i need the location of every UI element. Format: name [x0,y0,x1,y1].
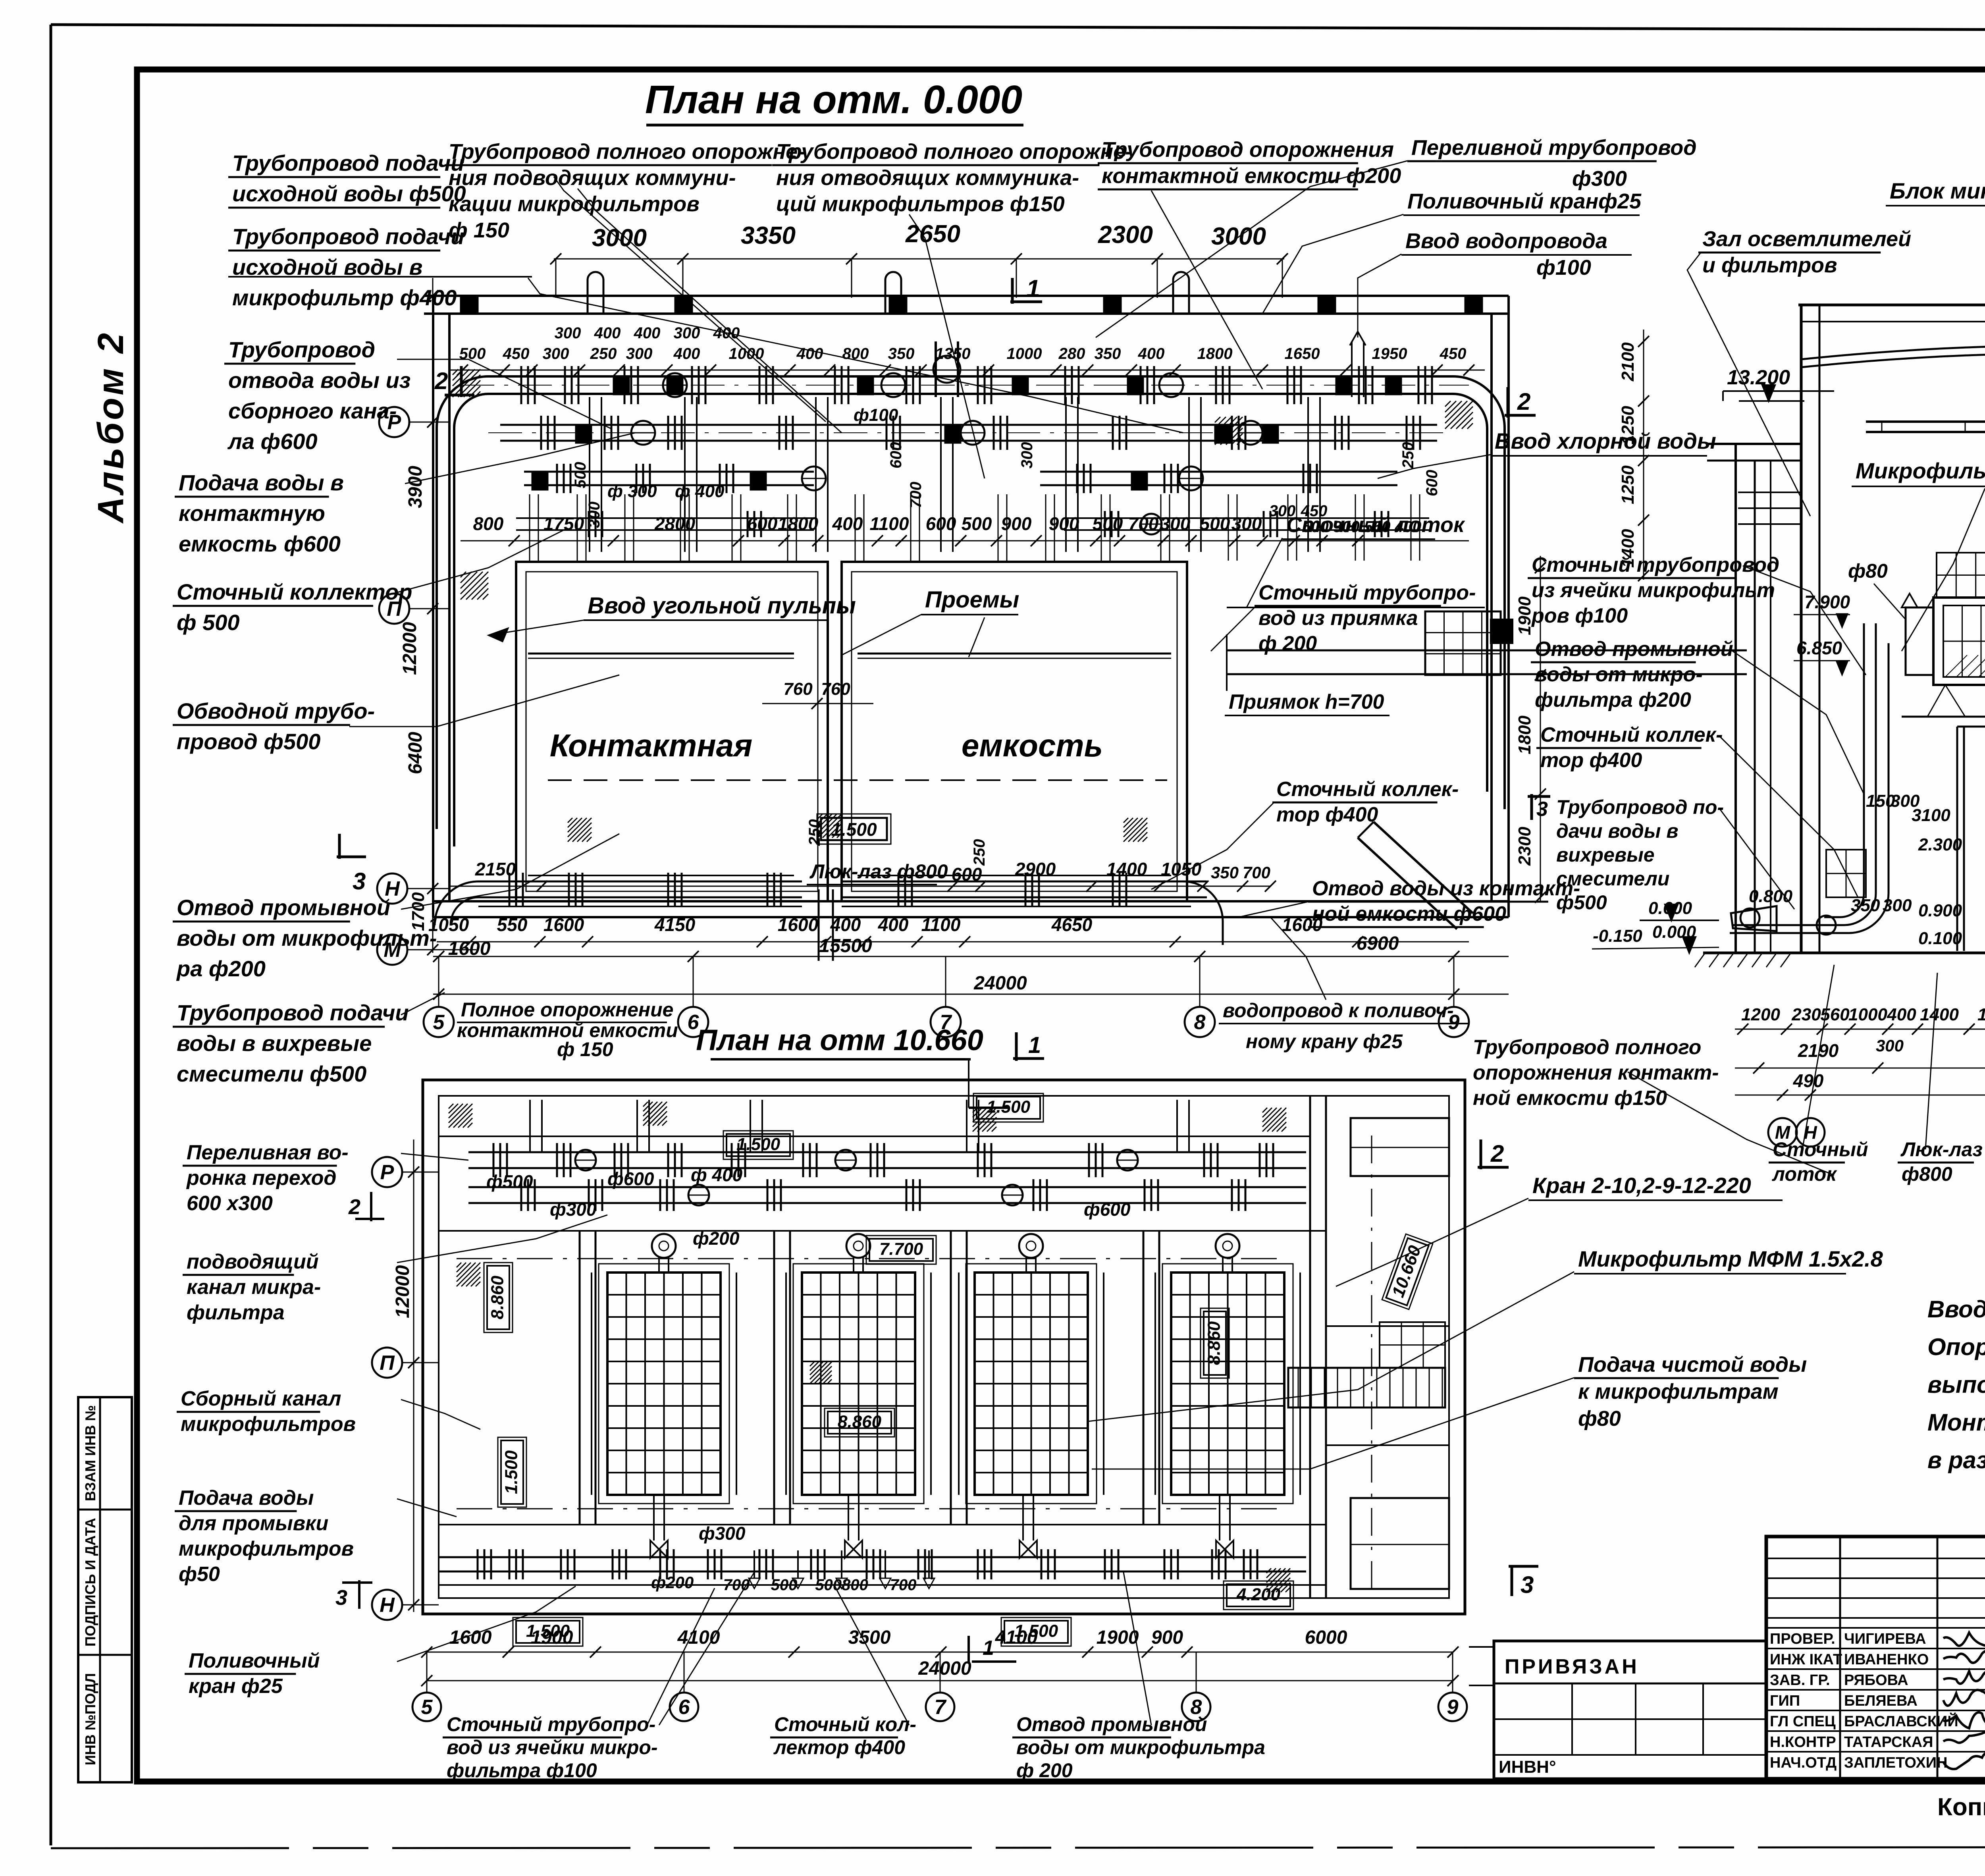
section axis bubbles [1768,1118,1797,1147]
section mark 3 left [337,856,366,858]
left riser pipes [1863,623,1865,893]
hatch marks in pipe zone [453,369,458,375]
svg-text:Отвод воды из контакт-: Отвод воды из контакт- [1312,877,1580,900]
svg-text:ф 150: ф 150 [449,218,509,242]
svg-text:1900: 1900 [1097,1627,1139,1648]
section mark 2 left [460,366,463,397]
svg-text:ций микрофильтров ф150: ций микрофильтров ф150 [776,192,1065,216]
svg-text:490: 490 [1793,1070,1824,1091]
upper plan left vertical dims [432,278,434,953]
svg-text:фильтра ф200: фильтра ф200 [1535,688,1691,711]
svg-text:300: 300 [1883,896,1912,915]
svg-text:500: 500 [572,462,589,488]
svg-text:7.900: 7.900 [1804,592,1850,612]
svg-text:Поливочный: Поливочный [189,1649,320,1672]
svg-text:12000: 12000 [392,1265,413,1318]
svg-text:Н: Н [380,1594,395,1617]
svg-text:400: 400 [673,345,700,362]
svg-text:450: 450 [1440,345,1467,362]
svg-text:2100: 2100 [1618,342,1638,382]
svg-text:450: 450 [503,345,530,362]
svg-text:Монтаж микрофильтров выполнять: Монтаж микрофильтров выполнять [1927,1409,1985,1436]
section: tile band above filter [1937,553,1985,598]
svg-text:1000: 1000 [1007,345,1042,362]
svg-text:Микрофильтр МФМ 1.5х2.8: Микрофильтр МФМ 1.5х2.8 [1578,1246,1883,1271]
section mark 1 (top) [1010,301,1042,303]
pipe flange groups [520,366,522,404]
svg-text:600: 600 [1423,470,1441,496]
svg-text:1: 1 [1028,1032,1041,1058]
svg-text:Поливочный кранф25: Поливочный кранф25 [1407,189,1642,213]
svg-text:7: 7 [935,1696,947,1719]
svg-text:1250: 1250 [1618,465,1638,504]
svg-text:Обводной трубо-: Обводной трубо- [177,698,375,723]
svg-text:4100: 4100 [995,1627,1038,1648]
svg-text:вихревые: вихревые [1556,844,1655,866]
svg-text:ф 500: ф 500 [177,610,240,635]
svg-text:350: 350 [888,345,915,362]
svg-text:Сточный коллек-: Сточный коллек- [1540,723,1723,746]
svg-text:1400: 1400 [1920,1005,1959,1024]
svg-text:Копировал· Коршунова: Копировал· Коршунова [1937,1793,1985,1821]
svg-text:3: 3 [353,868,366,895]
svg-text:8.860: 8.860 [1204,1321,1224,1365]
svg-text:Альбом 2: Альбом 2 [91,331,131,524]
fourth pipeline segments [516,517,814,519]
svg-text:Ввод хлорной воды: Ввод хлорной воды [1495,428,1716,453]
svg-text:к микрофильтрам: к микрофильтрам [1578,1380,1779,1404]
svg-text:-0.150: -0.150 [1593,926,1642,946]
svg-text:РЯБОВА: РЯБОВА [1844,1672,1908,1689]
svg-text:230: 230 [1791,1005,1821,1024]
svg-text:Трубопровод подачи: Трубопровод подачи [232,150,464,175]
svg-text:ному крану ф25: ному крану ф25 [1246,1030,1403,1053]
svg-text:ГЛ СПЕЦ: ГЛ СПЕЦ [1770,1713,1836,1730]
svg-text:6.850: 6.850 [1796,638,1842,658]
svg-text:ИНВ №ПОДЛ: ИНВ №ПОДЛ [82,1673,98,1765]
lower plan bottom pipe corridor [439,1556,1306,1558]
svg-text:дачи воды в: дачи воды в [1556,820,1679,842]
svg-text:2: 2 [348,1195,360,1219]
svg-text:600: 600 [747,513,778,534]
left stamp table [78,1397,132,1782]
svg-text:провод ф500: провод ф500 [177,729,320,754]
svg-text:Опоры под трубопроводы и армат: Опоры под трубопроводы и арматуры [1927,1334,1985,1360]
svg-text:кации микрофильтров: кации микрофильтров [449,192,700,216]
svg-text:6000: 6000 [1305,1627,1347,1648]
svg-text:250: 250 [1399,442,1417,469]
section mark 1 inside lower dims [967,1636,970,1664]
svg-text:1000: 1000 [1848,1005,1887,1024]
svg-text:300: 300 [1160,513,1191,534]
left extension rows of privyazan table [1469,1646,1494,1648]
svg-text:План на отм. 0.000: План на отм. 0.000 [645,77,1022,122]
svg-text:900: 900 [1049,513,1079,534]
svg-text:9: 9 [1447,1696,1459,1719]
svg-text:700: 700 [890,1576,917,1594]
svg-text:ИНЖ IКАТ: ИНЖ IКАТ [1770,1651,1842,1668]
title block outer [1766,1537,1985,1779]
1.500 box near luk-laz [821,818,887,840]
svg-text:760: 760 [821,679,850,699]
svg-text:Трубопровод полного опорожне-: Трубопровод полного опорожне- [776,140,1132,164]
svg-text:ф300: ф300 [1572,167,1627,191]
second lower pipe [478,906,802,907]
drain diagonal pipe [1358,838,1457,929]
valves lower plan top [575,1150,596,1170]
drum axles [652,1234,676,1258]
svg-text:Люк-лаз: Люк-лаз [1900,1138,1983,1161]
svg-text:Трубопровод: Трубопровод [228,337,375,362]
svg-text:1050: 1050 [1161,859,1202,879]
svg-text:ф 400: ф 400 [675,482,725,501]
right corridor walls [1309,1096,1311,1598]
bottom connections of cells [653,1495,655,1541]
svg-text:ф50: ф50 [179,1563,220,1586]
svg-text:ф100: ф100 [854,405,898,425]
section: adjacent hall (left) [1734,444,1737,953]
svg-text:и фильтров: и фильтров [1702,253,1837,277]
svg-text:вод из ячейки микро-: вод из ячейки микро- [447,1736,658,1758]
svg-text:ЗАВ. ГР.: ЗАВ. ГР. [1770,1672,1830,1689]
vertical pipe connectors [589,397,590,552]
svg-text:2900: 2900 [1015,859,1056,879]
svg-text:тор ф400: тор ф400 [1276,803,1378,826]
upper plan right zone: drain channel [1227,607,1485,608]
svg-text:1100: 1100 [870,513,909,534]
svg-text:400: 400 [634,324,661,342]
pipe centerlines [461,385,1469,386]
svg-text:1400: 1400 [1106,859,1147,879]
svg-text:3900: 3900 [405,466,426,508]
svg-text:ф 200: ф 200 [1016,1759,1073,1782]
svg-text:канал микра-: канал микра- [187,1276,321,1299]
upper plan: main pipelines [488,375,1453,378]
svg-text:Блок микрофильтров: Блок микрофильтров [1890,178,1985,203]
svg-text:6400: 6400 [405,732,426,774]
svg-text:Н.КОНТР: Н.КОНТР [1770,1734,1836,1751]
lower pipe of plan [478,881,802,883]
svg-text:ф300: ф300 [550,1199,597,1220]
pipe valves [663,373,687,397]
svg-text:отвода воды из: отвода воды из [228,368,410,393]
svg-text:ф 400: ф 400 [691,1165,743,1185]
svg-text:ф500: ф500 [1556,891,1607,914]
svg-text:контактной емкости ф200: контактной емкости ф200 [1102,164,1401,188]
svg-text:1.500: 1.500 [831,819,877,840]
svg-text:500: 500 [962,513,992,534]
svg-text:350: 350 [1095,345,1121,362]
svg-text:1800: 1800 [1515,715,1534,754]
ground line + hatch [1703,952,1985,954]
svg-text:8.860: 8.860 [488,1275,507,1319]
svg-text:ф800: ф800 [1902,1163,1952,1185]
svg-text:Трубопровод подачи: Трубопровод подачи [177,1000,409,1025]
left bottom cone + elbow [1731,906,1777,931]
svg-text:0.800: 0.800 [1749,887,1793,906]
svg-text:Отвод промывной: Отвод промывной [1016,1713,1207,1735]
svg-text:Сточный трубопровод: Сточный трубопровод [1532,553,1779,576]
contact tank B [842,562,1187,901]
svg-text:Зал осветлителей: Зал осветлителей [1702,227,1911,251]
svg-text:Ввод угольной пульпы: Ввод угольной пульпы [588,593,856,619]
svg-text:ф600: ф600 [607,1168,654,1189]
svg-text:600: 600 [926,513,956,534]
lower plan top pipe band [439,1136,1310,1137]
svg-text:Сточный коллек-: Сточный коллек- [1276,778,1459,801]
svg-text:ф80: ф80 [1578,1407,1621,1431]
svg-text:2650: 2650 [905,220,960,248]
svg-text:1750: 1750 [543,513,584,534]
svg-text:ла ф600: ла ф600 [227,429,318,454]
upper plan: building walls [424,295,1509,297]
svg-text:Трубопровод подачи: Трубопровод подачи [232,224,464,249]
svg-text:ИВАНЕНКО: ИВАНЕНКО [1844,1651,1929,1668]
svg-text:400: 400 [832,513,863,534]
svg-text:ра ф200: ра ф200 [176,956,266,981]
svg-text:Люк-лаз ф800: Люк-лаз ф800 [809,860,948,883]
svg-text:Сточный лоток: Сточный лоток [1286,513,1465,537]
svg-text:ПРИВЯЗАН: ПРИВЯЗАН [1505,1655,1639,1678]
svg-text:3: 3 [1536,798,1548,821]
small stair tiles left [1826,850,1866,897]
svg-text:Отвод промывной: Отвод промывной [177,895,390,920]
svg-text:ф 300: ф 300 [607,482,657,501]
section: crane beam [1866,420,1985,423]
dash-dot axes through lower plan [457,1258,1286,1259]
svg-text:1800: 1800 [1197,345,1233,362]
dark fittings on pipes [613,376,629,395]
svg-text:Подача воды в: Подача воды в [179,470,344,495]
svg-text:400: 400 [1138,345,1165,362]
svg-text:контактную: контактную [179,501,325,526]
svg-text:вод из приямка: вод из приямка [1258,607,1418,630]
svg-text:ной емкости ф150: ной емкости ф150 [1473,1087,1667,1110]
svg-text:4.200: 4.200 [1236,1585,1281,1604]
ground level arrows left [1665,904,1678,920]
svg-text:3350: 3350 [741,222,796,249]
svg-text:2800: 2800 [654,513,696,534]
svg-text:исходной воды в: исходной воды в [232,255,422,280]
svg-text:400: 400 [594,324,621,342]
right rooms [1351,1118,1449,1176]
svg-text:кран ф25: кран ф25 [189,1675,283,1698]
svg-text:900: 900 [1151,1627,1183,1648]
svg-text:Сборный канал: Сборный канал [181,1387,341,1410]
svg-text:лоток: лоток [1772,1163,1837,1185]
staircase [1288,1368,1445,1407]
svg-text:микрофильтров: микрофильтров [179,1537,354,1560]
drum supports [1927,685,1945,717]
svg-text:воды от микрофильтра: воды от микрофильтра [1016,1736,1265,1758]
upper plan left axis bubbles [379,407,409,437]
svg-text:ф500: ф500 [486,1171,533,1192]
svg-text:700: 700 [1128,513,1159,534]
svg-text:из ячейки микрофильт: из ячейки микрофильт [1532,579,1775,602]
svg-text:подводящий: подводящий [187,1250,318,1273]
svg-text:280: 280 [1058,345,1085,362]
svg-text:Трубопровод полного опорожне-: Трубопровод полного опорожне- [449,140,805,164]
svg-text:фильтра ф100: фильтра ф100 [447,1759,597,1782]
svg-text:Отвод промывной: Отвод промывной [1535,638,1733,661]
svg-text:500800: 500800 [815,1576,868,1594]
svg-text:3000: 3000 [592,224,647,252]
svg-text:1: 1 [1026,275,1040,303]
svg-text:ной емкости ф600: ной емкости ф600 [1312,902,1506,925]
svg-text:емкость ф600: емкость ф600 [179,531,341,556]
svg-text:ВЗАМ ИНВ №: ВЗАМ ИНВ № [82,1405,98,1501]
section mark 2 right of lower plan [1480,1139,1482,1169]
svg-text:5: 5 [421,1696,433,1719]
svg-text:Трубопровод полного: Трубопровод полного [1473,1036,1701,1059]
svg-text:2300: 2300 [1098,221,1153,249]
svg-text:Переливная во-: Переливная во- [187,1141,349,1164]
svg-text:тор ф400: тор ф400 [1540,749,1642,772]
svg-text:Сточный кол-: Сточный кол- [774,1713,916,1735]
svg-text:ЧИГИРЕВА: ЧИГИРЕВА [1844,1631,1926,1647]
privyazan box [1494,1641,1766,1779]
svg-text:600: 600 [952,864,982,885]
contact tank A [516,562,828,901]
section: building columns [1800,305,1803,953]
svg-text:ния отводящих коммуника-: ния отводящих коммуника- [776,166,1079,190]
lower plan axis bubbles [412,1693,441,1721]
svg-text:микрофильтров: микрофильтров [181,1413,356,1436]
vertical dim right x4140 [1643,330,1644,580]
svg-text:3500: 3500 [848,1627,891,1648]
svg-text:250: 250 [590,345,617,362]
svg-text:ф600: ф600 [1084,1199,1131,1220]
svg-text:Ввод реагентов и отбор проб см: Ввод реагентов и отбор проб см. лист ТХ-… [1927,1296,1985,1323]
svg-text:Микрофильтр МФМ1.5х2.8: Микрофильтр МФМ1.5х2.8 [1856,458,1985,483]
section mark 1 (lower title) [1015,1032,1018,1061]
hatches [643,1102,648,1107]
svg-text:ров ф100: ров ф100 [1531,604,1628,627]
svg-text:3100: 3100 [1912,806,1950,825]
svg-text:Сточный трубопро-: Сточный трубопро- [447,1713,655,1735]
svg-text:3: 3 [335,1586,347,1610]
svg-text:2150: 2150 [475,859,516,879]
svg-text:лектор ф400: лектор ф400 [773,1736,905,1758]
svg-text:емкость: емкость [962,728,1103,763]
lower plan left bubbles [372,1157,402,1187]
svg-text:1900: 1900 [531,1627,573,1648]
svg-text:План на отм 10.660: План на отм 10.660 [696,1024,983,1057]
svg-text:выполнять по чертежам марки КЖ: выполнять по чертежам марки КЖ-7,8 [1927,1371,1985,1398]
svg-text:Проемы: Проемы [925,587,1019,613]
lower plan outer walls [423,1080,1465,1614]
svg-text:600 х300: 600 х300 [187,1192,273,1215]
svg-text:300: 300 [1018,442,1036,469]
svg-text:1: 1 [983,1637,994,1660]
svg-text:300: 300 [1876,1036,1904,1055]
svg-text:2: 2 [434,368,448,394]
svg-text:6900: 6900 [1357,933,1399,954]
svg-text:ПОДПИСЬ И ДАТА: ПОДПИСЬ И ДАТА [82,1518,98,1647]
svg-text:700: 700 [907,482,925,508]
svg-text:8: 8 [1194,1011,1206,1034]
svg-text:1350: 1350 [935,345,971,362]
svg-text:1200: 1200 [1741,1005,1780,1024]
svg-text:760: 760 [783,679,813,699]
svg-text:Р: Р [380,1161,394,1184]
rotated dims right of plan [1540,556,1541,901]
boxed level labels [973,1093,1043,1122]
svg-text:1800: 1800 [778,513,819,534]
svg-text:350: 350 [1851,896,1880,915]
svg-text:300: 300 [543,345,569,362]
svg-text:Подача чистой воды: Подача чистой воды [1578,1353,1807,1377]
svg-text:Трубопровод по-: Трубопровод по- [1556,796,1724,818]
svg-text:воды от микрофильт-: воды от микрофильт- [177,925,437,951]
svg-text:Трубопровод опорожнения: Трубопровод опорожнения [1102,138,1394,162]
svg-text:ронка переход: ронка переход [186,1166,337,1190]
svg-text:микрофильтр ф400: микрофильтр ф400 [232,285,457,310]
central door panels [1957,726,1985,728]
lower plan cell walls [579,1231,581,1525]
upper plan axis bubbles bottom [424,1007,454,1037]
svg-text:300: 300 [626,345,653,362]
svg-text:воды от микро-: воды от микро- [1535,663,1703,686]
svg-text:800: 800 [473,513,504,534]
upper plan: roof stubs [588,272,603,314]
section mark 2 (near upper-plan right) [1507,387,1509,418]
outer sheet border [51,25,1985,31]
svg-text:600: 600 [887,442,905,469]
svg-text:П: П [380,1352,395,1375]
svg-text:ф200: ф200 [651,1573,694,1592]
microfilter drum in section [1933,598,1985,685]
svg-text:сборного кана-: сборного кана- [228,398,397,423]
svg-text:в разъемном виде.: в разъемном виде. [1927,1447,1985,1473]
svg-text:15500: 15500 [819,935,872,956]
svg-text:Сточный коллектор: Сточный коллектор [177,579,412,604]
svg-text:ф80: ф80 [1848,560,1888,582]
tank center dash line [548,779,1167,781]
svg-text:1400: 1400 [1977,1005,1985,1024]
svg-text:ф100: ф100 [1536,256,1591,280]
svg-text:300: 300 [555,324,581,342]
svg-text:Переливной трубопровод: Переливной трубопровод [1411,136,1697,160]
inlet riser at plan top right [1351,341,1353,397]
svg-text:Подача воды: Подача воды [179,1487,314,1510]
svg-text:1.500: 1.500 [501,1450,521,1494]
tee crossing center [935,341,937,397]
svg-text:2: 2 [1490,1140,1504,1167]
svg-text:1950: 1950 [1372,345,1407,362]
svg-text:НАЧ.ОТД: НАЧ.ОТД [1770,1755,1837,1771]
svg-text:смесители: смесители [1556,868,1669,890]
svg-text:ния подводящих коммуни-: ния подводящих коммуни- [449,166,736,190]
svg-text:Сточный: Сточный [1773,1138,1868,1161]
section mark 3 right of lower plan [1509,1565,1538,1568]
svg-text:водопровод к поливоч-: водопровод к поливоч- [1223,999,1454,1022]
svg-text:Ввод водопровода: Ввод водопровода [1405,229,1607,253]
svg-text:ф 150: ф 150 [557,1038,613,1060]
svg-text:БЕЛЯЕВА: БЕЛЯЕВА [1844,1693,1918,1709]
svg-text:0.100: 0.100 [1918,929,1962,948]
svg-text:опорожнения контакт-: опорожнения контакт- [1473,1061,1719,1084]
svg-text:3: 3 [1521,1571,1534,1598]
svg-text:ф 200: ф 200 [1258,632,1317,655]
svg-text:2300: 2300 [1515,827,1534,866]
svg-text:400: 400 [1887,1005,1916,1024]
svg-text:ф300: ф300 [699,1523,746,1544]
svg-text:900: 900 [1001,513,1032,534]
svg-text:2: 2 [1517,388,1530,415]
svg-text:Приямок h=700: Приямок h=700 [1229,690,1384,713]
svg-text:700: 700 [1243,863,1270,882]
